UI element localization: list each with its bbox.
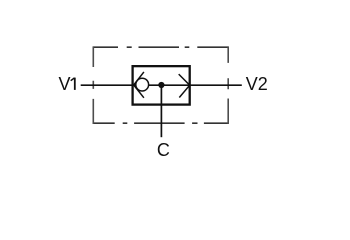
wire circle-to-arrow horizontal line — [149, 84, 190, 86]
valve body box — [133, 66, 190, 104]
check valve seat upper line — [134, 72, 144, 85]
enclosure dashed box top edge — [93, 46, 228, 48]
svg-text:V: V — [59, 74, 71, 94]
wire V1 port horizontal line — [81, 84, 136, 86]
svg-text:V2: V2 — [246, 74, 268, 94]
label V1 digit 1 stem — [74, 78, 76, 90]
wire C port vertical line — [160, 85, 162, 137]
flow arrow upper line — [179, 74, 190, 85]
label V1 digit 1 flag — [71, 78, 75, 81]
junction node — [158, 82, 164, 88]
flow arrow lower line — [179, 85, 189, 97]
enclosure dashed box right edge — [227, 46, 229, 124]
enclosure dashed box left edge — [92, 46, 94, 124]
wire V2 port horizontal line — [190, 84, 242, 86]
check valve ball circle — [136, 78, 149, 91]
svg-text:C: C — [157, 140, 170, 160]
check valve seat lower line — [134, 85, 144, 98]
enclosure dashed box bottom edge — [93, 122, 228, 124]
